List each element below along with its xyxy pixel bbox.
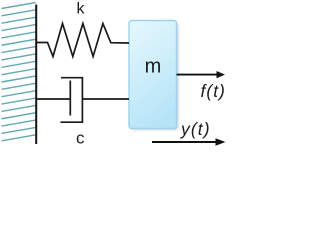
y(t) arrow xyxy=(152,141,216,143)
svg-text:f(t): f(t) xyxy=(201,81,226,101)
svg-text:k: k xyxy=(77,1,86,18)
svg-text:y(t): y(t) xyxy=(180,119,211,139)
damper rod right xyxy=(82,98,129,100)
mass m shadow xyxy=(131,23,179,131)
wall hatching xyxy=(2,3,36,141)
mass m xyxy=(129,21,177,129)
spring k xyxy=(36,24,129,57)
damper piston xyxy=(69,81,71,116)
svg-text:c: c xyxy=(76,129,85,148)
wall xyxy=(35,5,37,145)
f(t) arrow xyxy=(177,74,218,76)
damper cup xyxy=(61,78,83,123)
svg-text:m: m xyxy=(145,55,162,77)
damper rod left xyxy=(36,98,70,100)
